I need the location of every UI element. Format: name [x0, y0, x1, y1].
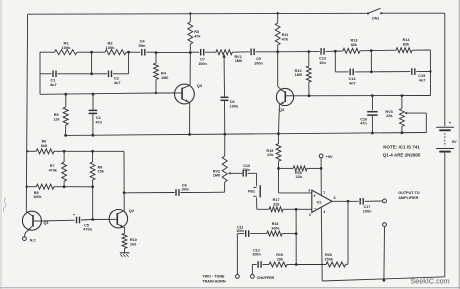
svg-text:N.C: N.C: [30, 238, 37, 242]
wire Q2 collector column: [123, 151, 125, 210]
wire left supply rail: [26, 14, 27, 211]
node R15 junction row M: [0, 0, 1, 1]
svg-text:1M0: 1M0: [161, 76, 168, 80]
transistor Q1: [22, 211, 49, 233]
svg-text:1M0: 1M0: [235, 59, 242, 63]
terminal chuffer: [251, 275, 275, 280]
svg-text:22k: 22k: [273, 202, 280, 206]
svg-text:Q2: Q2: [129, 208, 135, 213]
watermark: [411, 277, 450, 286]
svg-text:AMPLIFIER: AMPLIFIER: [398, 196, 418, 200]
wire right battery rail lower: [444, 153, 446, 277]
label output to amplifier: [398, 191, 419, 200]
svg-text:100n: 100n: [254, 61, 263, 65]
wire feedback column: [347, 201, 349, 264]
svg-text:Q4: Q4: [279, 107, 285, 112]
svg-text:−: −: [314, 206, 317, 211]
svg-text:470n: 470n: [83, 228, 92, 232]
resistor R5 12k: [53, 94, 68, 135]
wire Q3 emitter: [189, 102, 191, 134]
node C6 tap junction: [123, 191, 126, 194]
svg-text:10n: 10n: [319, 61, 326, 65]
wire bottom 0V rail: [322, 277, 445, 281]
svg-text:+9V: +9V: [326, 154, 333, 159]
svg-text:47n: 47n: [360, 122, 367, 126]
svg-text:R5: R5: [54, 113, 59, 117]
node R1-R2 junction: [90, 51, 93, 54]
wire two-tone column: [236, 234, 238, 275]
battery B1 9V: [436, 121, 457, 152]
svg-text:100k: 100k: [33, 195, 42, 199]
wire Q4 collector: [278, 52, 282, 90]
capacitor C4 50n: [139, 39, 156, 56]
resistor R15 22k: [266, 134, 281, 169]
node R12 bottom on base row: [308, 94, 311, 97]
svg-text:47n: 47n: [96, 121, 103, 125]
wire Q4 base row: [294, 95, 431, 97]
terminal output lower: [383, 223, 387, 227]
svg-text:2: 2: [309, 213, 311, 217]
svg-text:4u7: 4u7: [114, 80, 121, 85]
svg-text:100n: 100n: [198, 62, 207, 66]
node C3 top junction: [92, 93, 95, 96]
resistor R2 100k: [92, 41, 141, 55]
node R16 right junction: [320, 167, 323, 170]
resistor R14 82k: [371, 38, 430, 53]
node R7 top junction: [63, 150, 66, 153]
capacitor C12 100n: [252, 249, 269, 268]
svg-text:7: 7: [323, 191, 325, 195]
svg-text:22k: 22k: [267, 153, 274, 157]
resistor R17 22k: [257, 198, 296, 212]
capacitor C3 47n: [89, 94, 103, 135]
resistor R18 100k: [267, 222, 296, 236]
node C8-RV2 column on row M: [223, 133, 226, 136]
node C16 top junction: [371, 94, 374, 97]
svg-text:50n: 50n: [139, 43, 146, 48]
terminal +9V: [319, 154, 333, 159]
svg-text:470k: 470k: [49, 168, 58, 172]
transistor Q4: [276, 88, 293, 111]
svg-text:100k: 100k: [106, 45, 116, 50]
node Q3 emitter on row M: [188, 133, 191, 136]
wire top supply rail left segment: [28, 12, 368, 15]
node RV3 top junction: [401, 94, 404, 97]
svg-text:12k: 12k: [53, 118, 60, 122]
svg-text:82k: 82k: [351, 43, 358, 47]
svg-text:47k: 47k: [194, 34, 201, 38]
terminal output upper: [383, 199, 387, 203]
wire output lower to rail: [383, 227, 386, 282]
node C1-C2 junction: [90, 52, 93, 75]
node feedback takeoff: [347, 200, 350, 203]
node R5 top junction: [64, 93, 67, 96]
resistor R11 47k: [275, 12, 289, 52]
wire Q3 collector: [189, 53, 191, 86]
node R6 row left rail: [26, 150, 28, 152]
wire +9V to pin7: [320, 158, 322, 195]
resistor R10 1k0: [122, 228, 137, 253]
svg-text:15k: 15k: [98, 170, 105, 174]
svg-text:6: 6: [334, 196, 336, 200]
node Q4 emitter / R15 top on row M: [277, 132, 280, 135]
push button PB1: [248, 173, 260, 209]
node C5 right junction: [91, 218, 94, 221]
capacitor C7 100n: [190, 49, 216, 66]
capacitor C13 10n: [309, 48, 343, 65]
capacitor C6 100n: [124, 183, 204, 196]
resistor R9 15k: [90, 151, 105, 187]
svg-text:150k: 150k: [324, 258, 333, 262]
resistor R16 22k: [279, 166, 322, 179]
node R19 feedback junction: [295, 263, 298, 266]
capacitor C8 100n: [221, 61, 239, 135]
terminal N.C: [23, 233, 37, 242]
wire osc2 collector row: [278, 51, 309, 53]
node R7 bottom junction: [63, 185, 66, 188]
resistor R20 150k: [296, 253, 348, 267]
node R5 bottom: [64, 134, 67, 137]
svg-text:4n7: 4n7: [419, 78, 426, 82]
resistor R8 100k: [27, 184, 64, 199]
node R18 junction: [295, 232, 298, 235]
svg-text:100k: 100k: [271, 226, 280, 230]
svg-text:4n7: 4n7: [349, 82, 356, 86]
svg-text:TRAIN HORN: TRAIN HORN: [202, 280, 225, 284]
capacitor C15 4n7: [371, 68, 430, 82]
wire output pin6: [332, 200, 359, 202]
ground symbol: [120, 253, 130, 257]
op-amp IC1: [308, 189, 335, 217]
svg-text:TWO - TONE: TWO - TONE: [202, 274, 225, 278]
node R13-R14 junction: [370, 49, 373, 52]
wire ladder right vertical: [429, 50, 431, 96]
wire pin3 column: [279, 168, 312, 193]
capacitor C5 470n: [41, 212, 92, 231]
svg-text:Q1-4 ARE 2N2905: Q1-4 ARE 2N2905: [383, 153, 421, 158]
svg-text:SeekIC.com: SeekIC.com: [411, 277, 450, 286]
node R9 bottom junction: [91, 185, 94, 188]
svg-text:100n: 100n: [252, 253, 261, 257]
svg-text:4: 4: [323, 210, 325, 214]
capacitor C17 100n: [360, 198, 382, 213]
transistor Q2: [109, 208, 135, 228]
svg-text:6k8: 6k8: [41, 144, 47, 148]
resistor R12 1M0: [295, 52, 312, 96]
node R12 top junction: [307, 50, 310, 53]
svg-text:100k: 100k: [62, 45, 72, 50]
svg-text:3: 3: [308, 189, 310, 193]
node C14 left junction: [334, 50, 337, 53]
svg-text:20k: 20k: [277, 257, 284, 261]
svg-text:100n: 100n: [242, 168, 250, 172]
node pin2 junction: [295, 208, 298, 211]
terminal two-tone train horn: [202, 274, 239, 283]
svg-text:1k0: 1k0: [130, 242, 136, 246]
node R15-R16 junction: [277, 167, 280, 170]
svg-text:22k: 22k: [386, 114, 393, 118]
wire pin2 segment: [296, 208, 312, 210]
svg-text:CHUFFER: CHUFFER: [257, 276, 275, 280]
svg-text:IC1: IC1: [317, 200, 322, 204]
wire Q3 base row: [40, 93, 175, 94]
wire top supply rail right segment: [381, 12, 445, 14]
wire common emitter row M: [66, 133, 427, 136]
resistor R7 470k: [49, 151, 67, 186]
node R11 bottom / Q4 collector junction: [276, 50, 279, 53]
capacitor C11 100n: [236, 225, 267, 237]
resistor R1 100k: [40, 41, 92, 55]
svg-text:1M0: 1M0: [213, 174, 220, 178]
resistor R19 20k: [269, 253, 296, 267]
node C3 bottom: [92, 134, 95, 137]
svg-text:100n: 100n: [236, 229, 244, 233]
wire Q4 emitter: [278, 105, 281, 134]
capacitor C1 4u7: [40, 71, 92, 88]
svg-text:C3: C3: [96, 116, 101, 120]
switch DN1: [367, 8, 383, 20]
node RV3 bottom on row M: [401, 131, 404, 134]
svg-text:9V: 9V: [452, 139, 457, 144]
wire chuffer column: [251, 265, 253, 275]
resistor R6 6k8: [27, 140, 64, 154]
svg-text:100n: 100n: [181, 187, 189, 191]
wire right battery rail upper: [444, 13, 446, 126]
capacitor C14 4n7: [335, 51, 371, 85]
resistor R13 82k: [343, 39, 371, 54]
capacitor C2 4u7: [92, 52, 129, 85]
resistor R3 47k: [188, 12, 202, 52]
wire R6 row to collector column: [64, 150, 124, 152]
wire C6 to RV2 bottom: [204, 191, 225, 193]
node R2-C4 junction: [127, 51, 130, 54]
svg-text:1M0: 1M0: [295, 73, 302, 77]
capacitor C9 100n: [251, 49, 278, 66]
wire R8 row right: [64, 186, 93, 188]
svg-text:4u7: 4u7: [50, 82, 57, 87]
capacitor C10 100n: [242, 164, 256, 177]
node C16 bottom on row M: [371, 132, 374, 135]
svg-text:NOTE: IC1 IS 741: NOTE: IC1 IS 741: [383, 144, 420, 149]
svg-text:OUTPUT TO: OUTPUT TO: [398, 191, 419, 195]
transistor Q3: [175, 83, 203, 104]
node R8 row left rail: [26, 186, 28, 188]
svg-text:DN1: DN1: [372, 17, 379, 21]
wire inverting input column: [295, 209, 297, 264]
svg-text:82k: 82k: [403, 43, 410, 47]
svg-text:22k: 22k: [296, 175, 303, 179]
potentiometer RV3 22k: [385, 96, 426, 133]
capacitor C16 47n: [360, 96, 377, 133]
node R4 top junction: [155, 51, 158, 54]
potentiometer RV2 1M0: [213, 134, 242, 192]
potentiometer RV1 1M0: [216, 50, 250, 63]
resistor R4 1M0: [154, 53, 169, 95]
svg-text:47k: 47k: [282, 37, 289, 41]
svg-text:Q3: Q3: [197, 83, 203, 88]
node Q3 collector junction: [189, 51, 192, 54]
svg-text:+: +: [313, 193, 316, 198]
wire osc1 ladder left vertical: [39, 52, 41, 94]
svg-text:100n: 100n: [230, 105, 239, 109]
note text: [383, 144, 421, 157]
wire C4 to collector node: [156, 52, 190, 54]
wire pin4 column: [320, 207, 323, 281]
svg-text:PB1: PB1: [248, 190, 255, 194]
node R9 top junction: [91, 150, 94, 153]
svg-text:100n: 100n: [363, 209, 372, 213]
node C14 right junction: [370, 51, 373, 74]
wire RV3 wiper to row M end: [425, 113, 427, 132]
wire R9 column down: [92, 187, 94, 220]
wire C5 junction to Q2 base: [93, 218, 118, 220]
